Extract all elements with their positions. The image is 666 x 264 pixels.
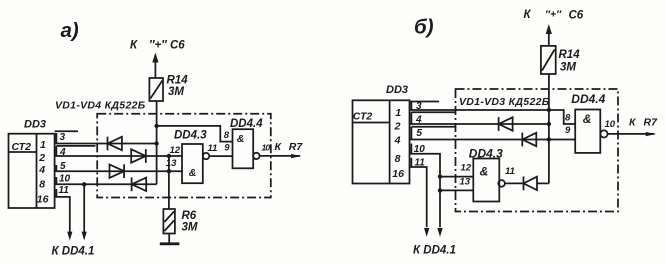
svg-text:4: 4 <box>394 134 401 146</box>
svg-text:4: 4 <box>38 164 45 176</box>
pin line labels 3 4 5 10 11 (a) <box>58 132 70 196</box>
wire node A to DD4.4 pin8 (a) <box>157 126 233 142</box>
dash-dot assembly box (a) <box>97 114 271 198</box>
nand gate DD4.4 (a) <box>233 129 254 168</box>
dash-dot assembly box (b) <box>456 89 619 212</box>
svg-text:R14: R14 <box>167 75 189 87</box>
svg-text:К DD4.1: К DD4.1 <box>413 245 456 257</box>
wire pin2 out 4 (a) <box>55 155 182 157</box>
pin line labels 3 4 5 10 11 (b) <box>414 101 426 168</box>
node B vertical wire to R6 (a) <box>168 156 170 209</box>
svg-text:″+″: ″+″ <box>149 40 167 52</box>
label DD3 (a) <box>24 119 46 131</box>
nand gate DD4.3 (a) <box>182 144 203 183</box>
value label R14 3M (b) <box>559 49 581 74</box>
svg-text:DD4.4: DD4.4 <box>230 118 263 130</box>
label a) <box>61 19 79 42</box>
inversion circle pin 10 (a) <box>253 153 259 159</box>
arrow up to +C6 (a) <box>152 53 158 79</box>
pin 13 label (a) <box>166 158 177 169</box>
net label K "+" C6 (b) <box>524 9 584 22</box>
svg-text:9: 9 <box>565 125 571 136</box>
wire pin4 out 5 (a) <box>55 170 182 172</box>
junction pin13 (b) <box>438 188 442 192</box>
pin 11 label (a) <box>208 143 218 154</box>
svg-text:а): а) <box>61 19 79 42</box>
svg-text:б): б) <box>414 16 434 39</box>
svg-text:R7: R7 <box>644 117 659 129</box>
diode VD1 (a) <box>108 137 122 151</box>
svg-text:8: 8 <box>565 112 571 123</box>
pin 9 label (a) <box>224 143 230 154</box>
svg-text:R7: R7 <box>289 141 304 153</box>
svg-text:8: 8 <box>39 179 45 191</box>
pin 10 label (b) <box>605 119 616 130</box>
svg-text:R14: R14 <box>559 49 581 61</box>
label b) <box>414 16 434 39</box>
label DD4.4 (a) <box>230 118 263 130</box>
label DD4.4 (b) <box>571 92 605 106</box>
svg-text:3М: 3М <box>168 86 184 98</box>
ground (a) <box>160 242 180 245</box>
inversion circle pin 10 (b) <box>600 130 607 137</box>
svg-text:&: & <box>189 167 197 179</box>
wire DD4.3 out to DD4.4 pin9 (a) <box>209 155 232 157</box>
svg-text:2: 2 <box>394 120 401 132</box>
net label K DD4.1 (b) <box>413 245 456 257</box>
svg-text:С6: С6 <box>569 10 584 22</box>
wire pin4 out 5 to DD4.4 pin9 (b) <box>410 139 576 141</box>
net label K R7 (a) <box>275 141 304 153</box>
pin 8 label (a) <box>224 130 230 141</box>
svg-text:13: 13 <box>460 176 471 187</box>
wire pin16 out 11 down to DD4.1 (b) <box>410 167 430 237</box>
amp symbol of DD4.4 (a) <box>237 133 245 145</box>
svg-text:К DD4.1: К DD4.1 <box>52 246 95 258</box>
pin 8 label (b) <box>565 112 571 123</box>
net label K R7 (b) <box>629 117 658 129</box>
wire pin2 out 4 (b) <box>410 123 549 125</box>
svg-text:VD1-VD4 КД522Б: VD1-VD4 КД522Б <box>55 100 146 112</box>
pin numbers 1 2 4 8 16 (a) <box>37 139 49 206</box>
resistor R6 (a) <box>163 209 175 234</box>
svg-text:К: К <box>524 9 532 21</box>
svg-text:5: 5 <box>416 128 422 139</box>
svg-text:16: 16 <box>392 168 404 180</box>
label VD1-VD3 KD522B (b) <box>459 96 550 108</box>
wire pin16 out 11 down (a) <box>55 197 73 241</box>
svg-text:1: 1 <box>395 107 401 119</box>
svg-text:16: 16 <box>37 194 49 206</box>
label DD4.3 (a) <box>174 129 207 141</box>
pin label cell ticks (a) <box>55 131 96 197</box>
label DD3 (b) <box>386 84 408 96</box>
svg-text:3М: 3М <box>560 62 576 74</box>
svg-text:13: 13 <box>166 158 177 169</box>
output wire with arrow K R7 (a) <box>260 154 302 158</box>
svg-text:3М: 3М <box>182 222 198 234</box>
svg-text:10: 10 <box>605 119 616 130</box>
svg-text:DD4.3: DD4.3 <box>469 147 503 161</box>
svg-text:DD4.3: DD4.3 <box>174 129 207 141</box>
label DD4.3 (b) <box>469 147 503 161</box>
svg-text:8: 8 <box>224 130 230 141</box>
resistor R14 (a) <box>149 78 163 101</box>
pin 10 label (a) <box>262 142 271 152</box>
svg-text:11: 11 <box>505 166 515 177</box>
node bus wire from R14 (a) <box>156 101 158 184</box>
label CT2 (b) <box>353 111 373 123</box>
wire R6 to ground (a) <box>168 234 170 244</box>
pin label cell ticks (b) <box>410 102 456 168</box>
pin 13 label (b) <box>460 176 471 187</box>
svg-text:СТ2: СТ2 <box>12 141 32 153</box>
svg-text:1: 1 <box>40 139 46 151</box>
wire VD3 to node (b) <box>537 182 549 184</box>
svg-text:DD3: DD3 <box>24 119 46 131</box>
svg-text:DD4.4: DD4.4 <box>571 92 605 106</box>
nand gate DD4.4 (b) <box>575 110 600 153</box>
wire branch down to DD4.1 (a) <box>82 184 87 240</box>
wire pin1 out 3 (a) <box>55 143 157 145</box>
svg-text:К: К <box>130 40 138 52</box>
svg-text:12: 12 <box>461 162 472 173</box>
svg-text:11: 11 <box>208 143 218 154</box>
value label R6 3M (a) <box>182 210 198 233</box>
label CT2 (a) <box>12 141 32 153</box>
junction pin12 (b) <box>438 174 442 178</box>
svg-text:&: & <box>583 112 592 126</box>
pin 12 label (b) <box>461 162 472 173</box>
net label K DD4.1 (a) <box>52 246 95 258</box>
amp symbol of DD4.4 (b) <box>583 112 592 126</box>
junction node A wire3 (a) <box>154 141 158 145</box>
svg-text:К: К <box>629 117 637 129</box>
junction wire4 node (b) <box>547 122 551 126</box>
svg-text:10: 10 <box>59 174 71 185</box>
wire pin8 out 10 (a) <box>55 183 157 185</box>
diode VD4 (a) <box>132 177 147 191</box>
junction node A top (a) <box>154 124 158 128</box>
diode VD2 (b) <box>522 133 536 147</box>
inversion circle pin 11 (a) <box>203 153 209 159</box>
value label R14 3M (a) <box>167 75 189 98</box>
svg-text:12: 12 <box>170 145 181 156</box>
svg-text:R6: R6 <box>182 210 197 222</box>
svg-text:2: 2 <box>38 152 45 164</box>
junction node B pin13 (a) <box>167 169 171 173</box>
svg-text:9: 9 <box>224 143 230 154</box>
junction wire5 node (b) <box>547 137 551 141</box>
svg-text:&: & <box>237 133 245 145</box>
svg-text:DD3: DD3 <box>386 84 408 96</box>
label VD1-VD4 KD522B (a) <box>55 100 146 112</box>
counter DD3 box (a) <box>9 134 55 208</box>
svg-text:С6: С6 <box>170 40 185 52</box>
inversion circle pin 11 (b) <box>498 180 505 187</box>
net label K "+" C6 (a) <box>130 40 185 52</box>
output wire with arrow K R7 (b) <box>608 132 656 136</box>
svg-text:К: К <box>275 141 283 153</box>
pin 9 label (b) <box>565 125 571 136</box>
svg-text:″+″: ″+″ <box>545 9 562 21</box>
junction wire3 node (b) <box>547 108 551 112</box>
diode VD3 (a) <box>110 164 125 178</box>
resistor R14 (b) <box>541 46 556 74</box>
svg-text:10: 10 <box>262 142 271 152</box>
wire DD4.3 out to VD3 (b) <box>505 182 524 184</box>
pin 12 label (a) <box>170 145 181 156</box>
counter DD3 box (b) <box>353 100 410 183</box>
nand gate DD4.3 (b) <box>473 159 499 202</box>
wire pin8 out 10 to DD4.3 pin12 and down (b) <box>410 154 474 237</box>
svg-text:11: 11 <box>58 185 69 196</box>
svg-text:3: 3 <box>60 132 66 143</box>
wire pin1 out 3 to DD4.4 pin8 (b) <box>410 110 576 124</box>
svg-text:&: & <box>480 165 489 179</box>
svg-text:СТ2: СТ2 <box>353 111 373 123</box>
diode VD2 (a) <box>131 149 146 163</box>
pin 11 label (b) <box>505 166 515 177</box>
diode VD1 (b) <box>499 117 513 131</box>
diode VD3 (b) <box>524 177 538 191</box>
amp symbol of DD4.3 (a) <box>189 167 197 179</box>
svg-text:8: 8 <box>395 153 401 165</box>
pin numbers 1 2 4 8 16 (b) <box>392 107 404 180</box>
arrow up to +C6 (b) <box>546 24 552 46</box>
node vertical wire R14 to VD3 (b) <box>548 74 550 183</box>
junction wire10 branch (a) <box>82 182 86 186</box>
junction node B pin12 (a) <box>167 154 171 158</box>
svg-text:VD1-VD3 КД522Б: VD1-VD3 КД522Б <box>459 96 550 108</box>
amp symbol of DD4.3 (b) <box>480 165 489 179</box>
